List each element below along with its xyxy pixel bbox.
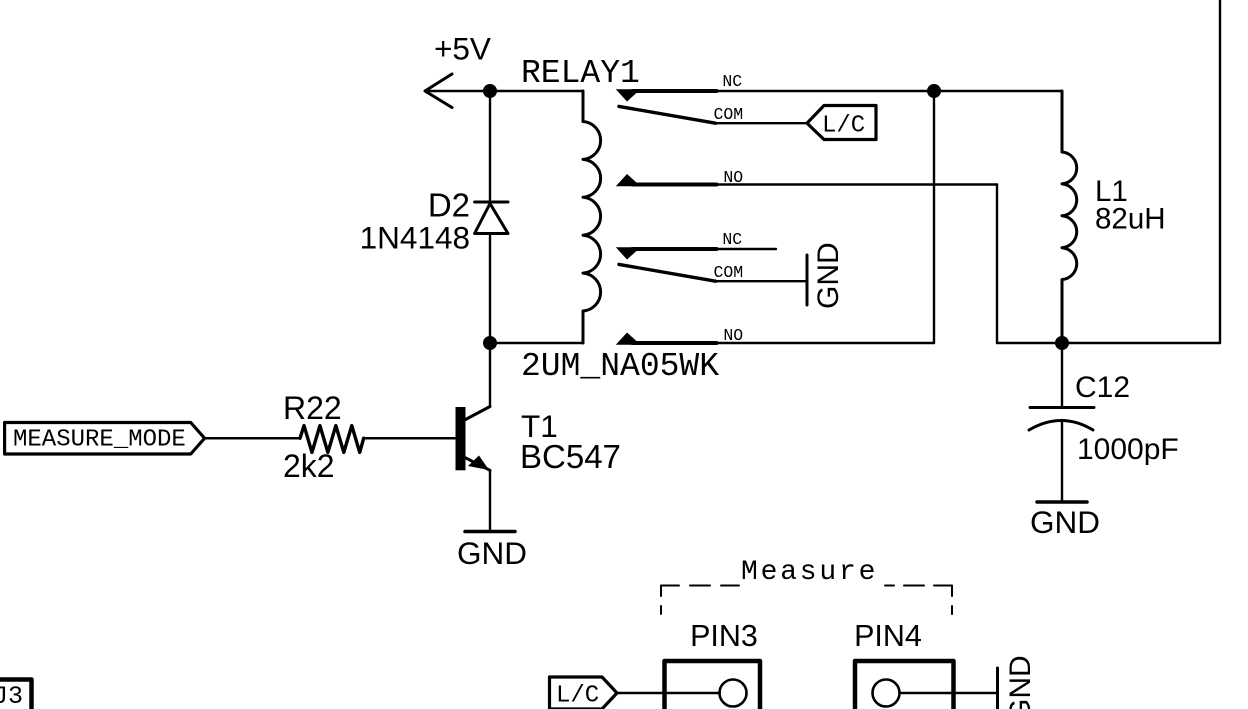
wire NC1 to node C — [717, 90, 935, 92]
svg-text:1000pF: 1000pF — [1077, 433, 1179, 466]
relay contact COM pin 1 — [619, 105, 807, 124]
wire R22 to T1 base — [364, 437, 456, 439]
wire coil bottom to node B — [490, 342, 583, 345]
svg-text:COM: COM — [714, 263, 744, 282]
ground symbol GND (C12) — [1030, 502, 1100, 540]
wire T1 emitter to ground — [489, 470, 491, 529]
svg-text:1N4148: 1N4148 — [360, 220, 470, 256]
wire T1 collector up to node B — [489, 343, 491, 407]
svg-text:L/C: L/C — [556, 683, 599, 709]
svg-text:D2: D2 — [428, 187, 470, 224]
relay contact COM pin 2 — [619, 263, 806, 282]
relay contact NO pin 2 — [616, 326, 744, 345]
svg-text:MEASURE_MODE: MEASURE_MODE — [13, 427, 186, 454]
junction node C — [927, 84, 941, 98]
wire C12 to ground — [1061, 420, 1063, 501]
wire NO1 to corner — [717, 183, 998, 185]
relay RELAY1 coil — [583, 91, 601, 343]
svg-text:J3: J3 — [0, 682, 23, 709]
wire node D to C12 — [1061, 343, 1063, 406]
diode D2 symbol — [475, 202, 508, 234]
junction node A — [483, 84, 497, 98]
wire L/C to PIN3 — [617, 692, 663, 694]
wire +5V to node A — [425, 90, 490, 92]
global label L/C (bottom, right-pointing) — [550, 677, 618, 709]
connector pin PIN4 — [854, 619, 996, 709]
svg-text:Measure: Measure — [741, 557, 878, 588]
transistor T1 — [456, 407, 491, 471]
relay contact NC pin 2 (unconnected stub) — [616, 230, 776, 260]
wire node C to L1 top — [934, 90, 1062, 92]
global label L/C (left-pointing) — [807, 106, 876, 140]
svg-text:PIN3: PIN3 — [690, 619, 758, 653]
power symbol +5V arrow — [425, 74, 452, 108]
wire node A to relay coil top — [490, 90, 583, 93]
wire NO2 to vertical — [717, 342, 935, 344]
capacitor C12 — [1029, 408, 1094, 431]
wire diode anode to node B — [489, 234, 491, 344]
svg-text:2k2: 2k2 — [283, 448, 335, 484]
relay contact NC pin 1 — [616, 72, 743, 102]
wire node A down to diode cathode — [489, 91, 491, 202]
ground symbol GND (PIN4, rotated) — [998, 655, 1038, 709]
wire bottom horizontal to right edge riser — [997, 342, 1220, 344]
svg-text:82uH: 82uH — [1095, 203, 1166, 236]
wire node C down to NO2 — [933, 91, 935, 343]
svg-text:COM: COM — [714, 105, 744, 124]
resistor R22 — [300, 426, 364, 453]
relay contact NO pin 1 — [616, 168, 744, 187]
wire label to R22 — [205, 437, 300, 439]
svg-text:NC: NC — [722, 230, 742, 249]
svg-text:+5V: +5V — [434, 31, 491, 67]
junction node D (L1 bottom) — [1055, 336, 1069, 350]
connector pin PIN3 — [663, 619, 760, 709]
svg-text:R22: R22 — [283, 390, 342, 426]
group box Measure (dashed) — [661, 586, 952, 615]
svg-text:2UM_NA05WK: 2UM_NA05WK — [521, 348, 719, 385]
svg-text:PIN4: PIN4 — [854, 619, 922, 653]
wire NO1 corner down — [996, 185, 998, 344]
inductor L1 — [1062, 91, 1077, 343]
ground symbol GND (T1 emitter) — [457, 532, 527, 572]
ground symbol GND (relay COM2, rotated) — [807, 242, 845, 309]
svg-text:GND: GND — [1004, 655, 1037, 709]
svg-text:RELAY1: RELAY1 — [521, 55, 640, 92]
svg-text:GND: GND — [1030, 504, 1100, 540]
wire right edge riser — [1219, 0, 1221, 343]
svg-text:C12: C12 — [1075, 371, 1130, 404]
connector J3 (bottom left, clipped) — [0, 680, 32, 709]
global label MEASURE_MODE — [5, 423, 205, 455]
svg-text:BC547: BC547 — [520, 438, 621, 475]
svg-text:GND: GND — [457, 535, 527, 571]
junction node B — [483, 336, 497, 350]
svg-text:NC: NC — [722, 72, 742, 91]
svg-text:GND: GND — [812, 242, 845, 309]
svg-text:L/C: L/C — [822, 113, 865, 140]
